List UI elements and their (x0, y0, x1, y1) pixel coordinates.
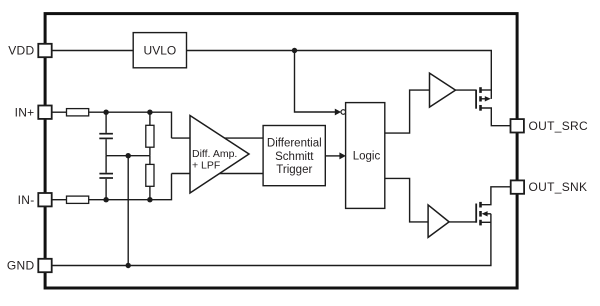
node IN- / C junction (103, 197, 108, 202)
svg-text:IN-: IN- (18, 193, 35, 207)
node mid node GND tap (126, 153, 131, 158)
transistor high-side NMOS (476, 87, 510, 126)
wire IN+ rail to amp (89, 112, 172, 138)
wire IN- pin to series resistor (52, 199, 67, 201)
pin OUT_SRC (511, 119, 524, 132)
capacitor C upper (IN+ to mid node) (99, 112, 113, 156)
pin GND (38, 259, 51, 272)
svg-text:Differential: Differential (267, 138, 322, 150)
arrowhead into Logic input (339, 152, 346, 159)
wire Logic output to high-side buffer (385, 90, 430, 133)
capacitor C lower (mid node to IN-) (99, 156, 113, 200)
wire mid node horizontal (106, 155, 150, 157)
wire GND rail (52, 214, 491, 266)
pin IN+ (38, 106, 51, 119)
IC boundary (45, 14, 517, 288)
wire IN+ pin to series resistor (52, 111, 67, 113)
arrowhead into Logic inverted input (335, 109, 341, 116)
node IN+ / R junction (147, 110, 152, 115)
svg-text:UVLO: UVLO (144, 44, 177, 58)
wire Logic output to low-side buffer (385, 178, 428, 222)
svg-text:+ LPF: + LPF (192, 160, 220, 172)
svg-text:OUT_SNK: OUT_SNK (529, 180, 588, 194)
wire Schmitt output to Logic (325, 155, 340, 157)
wire IN- rail to amp (89, 174, 172, 200)
transistor low-side NMOS (476, 187, 511, 226)
wire VDD tap to Logic inverted input (295, 51, 336, 113)
node IN+ / C junction (103, 110, 108, 115)
svg-text:Trigger: Trigger (276, 164, 312, 176)
wire VDD rail (UVLO to high-side FET drain) (187, 51, 492, 99)
wire IN- signal into Schmitt (passes behind amp) (172, 173, 264, 175)
UVLO block (133, 33, 186, 68)
resistor R upper (IN+ to mid node) (146, 112, 154, 156)
resistor R lower (mid node to IN-) (146, 156, 154, 200)
node GND tap junction (126, 263, 131, 268)
node IN- / R junction (147, 197, 152, 202)
svg-text:IN+: IN+ (15, 105, 35, 119)
pin IN- (38, 193, 51, 206)
op-amp diff amp + LPF (190, 116, 249, 194)
buffer high side (430, 73, 456, 107)
wire mid node to GND rail (127, 156, 129, 266)
svg-text:Diff. Amp.: Diff. Amp. (192, 148, 237, 160)
svg-text:VDD: VDD (8, 44, 34, 58)
wire IN+ signal into Schmitt (passes behind amp) (172, 137, 264, 139)
pin VDD (38, 44, 51, 57)
inversion bubble on Logic input (341, 110, 346, 115)
buffer low side (428, 205, 449, 238)
Differential Schmitt Trigger block (263, 126, 325, 186)
resistor IN+ series (67, 109, 89, 116)
pin OUT_SNK (511, 180, 524, 193)
wire high-side buffer to gate (456, 89, 477, 91)
wire VDD rail (pin to UVLO) (52, 50, 134, 52)
svg-text:Schmitt: Schmitt (275, 151, 314, 163)
Logic block (346, 103, 385, 209)
wire low-side buffer to gate (449, 221, 476, 223)
resistor IN- series (67, 196, 89, 203)
svg-text:OUT_SRC: OUT_SRC (529, 119, 588, 133)
svg-text:GND: GND (7, 259, 35, 273)
node VDD tap junction (292, 48, 297, 53)
svg-text:Logic: Logic (353, 151, 381, 163)
